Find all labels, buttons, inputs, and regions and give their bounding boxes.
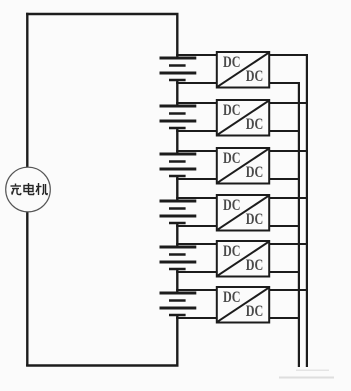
svg-text:DC: DC xyxy=(246,68,263,85)
svg-text:DC: DC xyxy=(223,102,241,119)
svg-text:DC: DC xyxy=(223,150,241,167)
svg-text:DC: DC xyxy=(223,289,241,306)
svg-text:DC: DC xyxy=(246,257,263,274)
svg-text:DC: DC xyxy=(223,243,241,260)
svg-text:DC: DC xyxy=(246,116,263,133)
svg-text:DC: DC xyxy=(223,54,241,71)
svg-text:DC: DC xyxy=(246,211,263,228)
svg-text:DC: DC xyxy=(246,303,263,320)
svg-text:DC: DC xyxy=(223,197,241,214)
svg-text:DC: DC xyxy=(246,164,263,181)
